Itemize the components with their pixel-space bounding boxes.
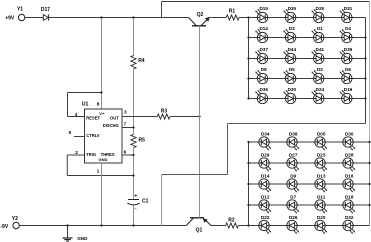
svg-text:Y2: Y2 — [12, 216, 18, 222]
node top-left rail row 1 — [247, 16, 249, 18]
wire top grid row 3 — [249, 58, 366, 60]
LED D36 — [255, 87, 268, 104]
LED D11 — [315, 194, 327, 213]
LED D5 — [283, 67, 295, 84]
svg-text:D38: D38 — [289, 131, 298, 136]
node top-left rail row 4 — [247, 77, 249, 79]
wire R2 to LED grid — [238, 225, 248, 227]
LED D15 — [255, 6, 268, 23]
wire top grid row 2 — [249, 37, 366, 39]
wire -9V rail bottom — [19, 225, 186, 227]
svg-text:7: 7 — [124, 122, 127, 127]
svg-text:D30: D30 — [345, 131, 354, 136]
LED D29 — [259, 152, 271, 171]
svg-text:Q1: Q1 — [196, 228, 203, 234]
LED D31 — [340, 6, 353, 23]
svg-text:GND: GND — [77, 236, 88, 241]
node TRIG-THRES junction — [132, 174, 134, 176]
wire RESET loop — [68, 93, 102, 117]
node bottom-right rail row 4 — [368, 204, 370, 206]
svg-text:D6: D6 — [345, 67, 351, 72]
svg-text:D36: D36 — [259, 87, 268, 92]
terminal Y2 (-9V) — [0, 216, 19, 230]
svg-text:+9V: +9V — [5, 15, 15, 21]
node THRES junction — [132, 154, 134, 156]
wire +9V rail top — [25, 17, 189, 19]
svg-text:D4: D4 — [345, 26, 351, 31]
LED D16 — [343, 173, 355, 192]
svg-text:D29: D29 — [261, 152, 270, 157]
svg-text:D2: D2 — [317, 67, 323, 72]
svg-text:D30: D30 — [288, 87, 297, 92]
svg-text:D44: D44 — [288, 47, 297, 52]
ground — [63, 236, 89, 241]
LED D27 — [287, 152, 299, 171]
wire R1 to LED grid — [239, 17, 249, 19]
svg-text:CTRLV: CTRLV — [86, 133, 100, 138]
svg-text:D22: D22 — [261, 215, 270, 220]
svg-text:D5: D5 — [289, 67, 295, 72]
wire R5 to C1 — [133, 148, 135, 199]
svg-text:D3: D3 — [289, 26, 295, 31]
wire top link V+ to bottom-grid right rail — [162, 1, 370, 3]
LED D1 — [312, 26, 324, 43]
node C1 junction — [132, 224, 134, 226]
node V+ junction R4 riser — [132, 16, 134, 18]
LED D26 — [287, 215, 299, 234]
wire bottom grid row 5 — [249, 225, 370, 227]
wire C1 to -9V — [133, 205, 135, 225]
svg-text:D31: D31 — [344, 6, 353, 11]
LED D38 — [287, 131, 299, 150]
node pin1 to -9V junction — [100, 224, 102, 226]
svg-text:D41: D41 — [316, 47, 325, 52]
wire base link Q2 to Q1 — [199, 26, 201, 218]
wire bottom grid right rail upper — [369, 2, 371, 143]
svg-text:1: 1 — [97, 168, 100, 173]
svg-text:R3: R3 — [161, 108, 168, 114]
resistor R4 — [131, 56, 136, 69]
svg-text:TRIG: TRIG — [86, 152, 96, 157]
diode D17 — [41, 7, 50, 21]
svg-text:D25: D25 — [316, 6, 325, 11]
node R2 rail junction — [247, 224, 249, 226]
resistor R2 — [226, 223, 239, 228]
svg-text:D28: D28 — [345, 152, 354, 157]
wire R3 to transistor bases — [170, 116, 199, 118]
svg-text:2: 2 — [75, 150, 78, 155]
svg-text:D19: D19 — [344, 87, 353, 92]
svg-text:D11: D11 — [317, 194, 326, 199]
svg-text:R5: R5 — [139, 138, 146, 144]
wire top grid row 1 — [249, 17, 366, 19]
LED D28 — [343, 152, 355, 171]
svg-text:C1: C1 — [142, 198, 149, 204]
LED D23 — [315, 152, 327, 171]
node bottom-right rail row 1 — [368, 141, 370, 143]
LED D41 — [312, 47, 325, 64]
svg-text:R1: R1 — [229, 8, 236, 14]
node V+ junction pin8 riser — [100, 16, 102, 18]
wire top grid return — [162, 124, 366, 226]
svg-text:GND: GND — [99, 157, 108, 162]
wire R4 to R5 — [133, 69, 135, 134]
svg-text:6: 6 — [124, 150, 127, 155]
node top-left rail row 5 — [247, 97, 249, 99]
wire bottom grid right rail — [369, 142, 371, 226]
LED D12 — [259, 194, 271, 213]
LED D37 — [255, 47, 268, 64]
svg-text:D26: D26 — [289, 215, 298, 220]
node ground junction — [66, 224, 68, 226]
resistor R1 — [226, 15, 239, 20]
svg-text:D12: D12 — [261, 194, 270, 199]
svg-text:D27: D27 — [289, 152, 298, 157]
wire top grid right rail — [365, 18, 367, 124]
LED D30 — [283, 87, 296, 104]
wire OUT pin 3 to R3 — [122, 116, 157, 118]
op-amp U1 (555 timer) body — [82, 102, 122, 163]
wire top grid left rail — [248, 18, 250, 99]
svg-text:D7: D7 — [290, 194, 296, 199]
svg-text:-9V: -9V — [0, 224, 8, 230]
svg-text:D20: D20 — [317, 215, 326, 220]
LED D22 — [259, 215, 271, 234]
node bottom-left rail row 3 — [247, 183, 249, 185]
LED D44 — [283, 47, 296, 64]
node top-right rail row 4 — [364, 77, 366, 79]
LED D6 — [340, 67, 352, 84]
node bottom-right rail row 3 — [368, 183, 370, 185]
LED D34 — [259, 131, 271, 150]
svg-text:D24: D24 — [316, 87, 325, 92]
wire riser V+ to top link — [161, 2, 163, 18]
LED D39 — [340, 47, 353, 64]
LED D14 — [255, 26, 268, 43]
svg-text:R2: R2 — [228, 218, 235, 224]
svg-text:RESET: RESET — [86, 115, 100, 120]
wire bottom grid row 1 — [249, 141, 370, 143]
LED D32 — [343, 215, 355, 234]
wire DISCHG pin 7 — [122, 127, 134, 129]
svg-text:Q2: Q2 — [197, 12, 204, 18]
svg-text:D39: D39 — [344, 47, 353, 52]
svg-text:D16: D16 — [345, 173, 354, 178]
svg-text:V+: V+ — [99, 111, 105, 116]
svg-text:5: 5 — [69, 130, 72, 135]
node base junction — [198, 115, 200, 117]
LED D20 — [315, 215, 327, 234]
svg-text:D18: D18 — [345, 194, 354, 199]
LED D4 — [340, 26, 352, 43]
svg-text:D05: D05 — [317, 131, 326, 136]
node top-right rail row 5 — [364, 97, 366, 99]
transistor Q1 — [186, 218, 211, 234]
svg-text:D17: D17 — [41, 7, 50, 13]
svg-text:D23: D23 — [317, 152, 326, 157]
wire bottom grid row 3 — [249, 183, 370, 185]
svg-text:OUT: OUT — [110, 115, 119, 120]
resistor R5 — [131, 134, 136, 148]
svg-text:D1: D1 — [317, 26, 323, 31]
wire V+ to U1 pin 8 — [101, 18, 103, 110]
svg-text:D15: D15 — [259, 6, 268, 11]
wire top grid row 4 — [249, 78, 366, 80]
wire Q1 to R2 — [211, 225, 226, 227]
svg-text:D32: D32 — [345, 215, 354, 220]
wire top grid row 5 — [249, 98, 366, 100]
node top-left rail row 2 — [247, 36, 249, 38]
LED D9 — [287, 173, 299, 192]
LED D25 — [312, 6, 325, 23]
svg-text:D37: D37 — [259, 47, 268, 52]
wire GND pin 1 — [101, 163, 103, 226]
wire bottom grid row 2 — [249, 162, 370, 164]
LED D24 — [312, 87, 325, 104]
capacitor C1 — [127, 194, 148, 209]
svg-text:D14: D14 — [261, 173, 270, 178]
node RESET-V+ junction — [100, 91, 102, 93]
wire to ground — [67, 226, 69, 238]
node bottom-left rail row 1 — [247, 141, 249, 143]
LED D05 — [315, 131, 327, 150]
node bottom-left rail row 2 — [247, 162, 249, 164]
node bottom-right rail row 2 — [368, 162, 370, 164]
svg-text:D8: D8 — [261, 67, 267, 72]
LED D3 — [283, 26, 295, 43]
terminal Y1 (+9V) — [5, 7, 25, 22]
LED D19 — [340, 87, 353, 104]
LED D7 — [287, 194, 299, 213]
svg-text:Y1: Y1 — [17, 7, 23, 13]
wire THRES pin 6 — [122, 154, 134, 156]
svg-text:3: 3 — [124, 109, 127, 114]
LED D35 — [283, 6, 296, 23]
LED D30 — [343, 131, 355, 150]
svg-text:8: 8 — [97, 101, 100, 106]
wire V+ to R4 — [133, 18, 135, 56]
node DISCHG junction — [132, 126, 134, 128]
LED D13 — [315, 173, 327, 192]
svg-text:D35: D35 — [288, 6, 297, 11]
svg-text:U1: U1 — [82, 102, 89, 108]
svg-text:D14: D14 — [259, 26, 268, 31]
wire bottom grid left rail — [248, 142, 250, 226]
node top-right rail row 2 — [364, 36, 366, 38]
LED D2 — [312, 67, 324, 84]
wire +9V rail to R1 — [210, 17, 227, 19]
LED D18 — [343, 194, 355, 213]
LED D8 — [255, 67, 267, 84]
svg-text:D13: D13 — [317, 173, 326, 178]
svg-text:4: 4 — [75, 112, 78, 117]
LED D14 — [259, 173, 271, 192]
svg-text:DISCHG: DISCHG — [103, 123, 119, 128]
node top-left rail row 3 — [247, 57, 249, 59]
node top-right rail row 3 — [364, 57, 366, 59]
svg-text:D34: D34 — [261, 131, 270, 136]
wire TRIG loop — [67, 155, 133, 176]
node bottom-left rail row 4 — [247, 204, 249, 206]
wire CTRLV stub pin 5 — [74, 136, 85, 138]
svg-text:D9: D9 — [290, 173, 296, 178]
wire bottom grid row 4 — [249, 204, 370, 206]
svg-text:R4: R4 — [138, 58, 145, 64]
transistor Q2 — [189, 12, 210, 26]
resistor R3 — [157, 114, 170, 119]
